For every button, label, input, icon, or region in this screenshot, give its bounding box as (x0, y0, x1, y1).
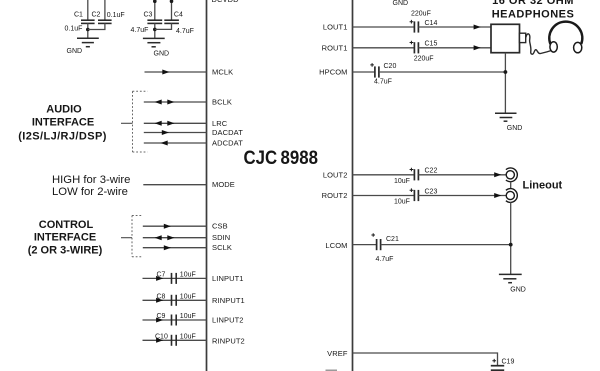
capacitor C3 (144, 12, 163, 24)
svg-text:HIGH for 3-wire: HIGH for 3-wire (52, 174, 130, 186)
svg-text:C8: C8 (157, 293, 166, 300)
capacitor C21 (371, 233, 399, 250)
wire MODE (143, 184, 206, 186)
svg-text:ROUT2: ROUT2 (322, 191, 348, 200)
svg-text:16 OR 32 OHM: 16 OR 32 OHM (492, 0, 574, 7)
capacitor C8 (157, 293, 177, 306)
arrow MCLK right (162, 70, 169, 75)
svg-text:C23: C23 (425, 188, 438, 195)
svg-text:10uF: 10uF (180, 271, 196, 278)
wire lineout jacks to ground (510, 202, 512, 274)
wire VREF (353, 353, 498, 365)
IC U1 CJC8988 right edge (352, 0, 354, 371)
junction dot LCOM (509, 243, 513, 247)
svg-text:RINPUT2: RINPUT2 (212, 336, 245, 345)
label AUDIO INTERFACE (I2S/LJ/RJ/DSP) (18, 104, 107, 143)
svg-text:GND: GND (507, 125, 523, 132)
wire between lineout jacks (510, 182, 512, 189)
wire SCLK (143, 247, 207, 249)
arrow SCLK right (164, 245, 171, 250)
junction dot HPCOM (504, 70, 508, 74)
svg-text:CSB: CSB (212, 222, 228, 231)
connector line control text to bracket (121, 237, 132, 239)
wire LOUT2 to lineout jack (418, 174, 506, 176)
arrows BCLK bidirectional (155, 100, 162, 105)
svg-text:Lineout: Lineout (523, 180, 563, 192)
wire C4 bottom L to junction (155, 23, 172, 29)
svg-text:10uF: 10uF (394, 199, 410, 206)
svg-text:SCLK: SCLK (212, 243, 232, 252)
wire DACDAT (144, 132, 207, 134)
svg-text:C10: C10 (155, 333, 168, 340)
ground under lineout (499, 274, 526, 293)
svg-text:DACDAT: DACDAT (212, 128, 243, 137)
wire ROUT1 to jack (418, 47, 491, 49)
svg-text:RINPUT1: RINPUT1 (212, 296, 245, 305)
junction dot C4 top (170, 0, 174, 3)
arrow ROUT1 into jack (474, 45, 481, 50)
wire C1 top (87, 0, 89, 20)
capacitor C23 (410, 188, 438, 201)
wire C3 top (154, 0, 156, 20)
arrows SDIN bidirectional (155, 235, 162, 240)
svg-text:LOW for 2-wire: LOW for 2-wire (52, 186, 128, 198)
svg-text:ADCDAT: ADCDAT (212, 139, 243, 148)
svg-text:AUDIO: AUDIO (46, 104, 82, 116)
junction dot C3/C4 (153, 28, 157, 32)
wire LINPUT2 (143, 319, 207, 321)
ground under headphone jack (495, 113, 522, 132)
arrow RINPUT2 (156, 338, 163, 343)
arrow CSB right (164, 224, 171, 229)
svg-text:220uF: 220uF (411, 10, 431, 17)
svg-text:220uF: 220uF (414, 56, 434, 63)
svg-text:10uF: 10uF (394, 178, 410, 185)
svg-text:INTERFACE: INTERFACE (32, 116, 94, 128)
IC U1 CJC8988 left edge (206, 0, 208, 371)
wire HPCOM left (353, 71, 375, 73)
svg-text:LCOM: LCOM (325, 241, 347, 250)
svg-text:HEADPHONES: HEADPHONES (492, 8, 575, 20)
audio interface dashed bracket (133, 91, 148, 152)
svg-text:LOUT2: LOUT2 (323, 170, 348, 179)
svg-text:C7: C7 (157, 271, 166, 278)
capacitor C19 (491, 359, 515, 371)
wire LCOM left (353, 244, 377, 246)
wire LRC (144, 122, 207, 124)
svg-text:BCLK: BCLK (212, 98, 232, 107)
svg-text:(I2S/LJ/RJ/DSP): (I2S/LJ/RJ/DSP) (18, 131, 107, 143)
wire ROUT1 (353, 47, 414, 49)
svg-text:LINPUT2: LINPUT2 (212, 316, 244, 325)
capacitor C14 (410, 20, 438, 33)
svg-text:SDIN: SDIN (212, 233, 230, 242)
svg-text:LRC: LRC (212, 119, 228, 128)
wire C2 bottom L to junction (88, 23, 105, 29)
ground under C1 (67, 38, 99, 55)
svg-text:MODE: MODE (212, 180, 235, 189)
wire C1 bottom to ground (87, 23, 89, 38)
capacitor C10 (155, 333, 176, 346)
svg-text:C1: C1 (74, 11, 83, 18)
svg-text:GND: GND (154, 50, 170, 57)
svg-text:INTERFACE: INTERFACE (34, 231, 96, 243)
junction dot C3 top (153, 0, 157, 3)
arrow DACDAT right (162, 130, 169, 135)
wire ADCDAT (144, 142, 207, 144)
wire jack box to ground (504, 53, 506, 113)
wire LCOM right to junction (381, 244, 511, 246)
wire BCLK (144, 101, 207, 103)
arrow RINPUT1 (156, 298, 163, 303)
svg-text:MCLK: MCLK (212, 68, 233, 77)
capacitor C7 (157, 271, 177, 284)
headphones headband (549, 22, 582, 44)
svg-text:C15: C15 (425, 41, 438, 48)
wire CSB (143, 225, 207, 227)
svg-text:CONTROL: CONTROL (39, 219, 94, 231)
arrows LRC bidirectional (155, 121, 162, 126)
control interface dashed bracket (132, 216, 142, 257)
svg-text:GND: GND (510, 287, 526, 294)
arrow LINPUT2 (156, 318, 163, 323)
headphones left earpiece (550, 42, 557, 52)
svg-text:C3: C3 (144, 12, 153, 19)
wire HPCOM right to junction (379, 71, 506, 73)
arrow ADCDAT left (161, 141, 168, 146)
svg-text:10uF: 10uF (180, 333, 196, 340)
wire LOUT1 (353, 26, 414, 28)
wire MCLK (145, 71, 207, 73)
arrow ROUT2 (494, 193, 501, 198)
wire RINPUT1 (143, 299, 207, 301)
headphones right earpiece (574, 42, 582, 52)
wire ROUT2 to lineout jack (418, 195, 506, 197)
wire RINPUT2 (143, 339, 207, 341)
wire LOUT1 to jack (418, 26, 491, 28)
svg-text:10uF: 10uF (180, 313, 196, 320)
label CONTROL INTERFACE (2 OR 3-WIRE) (28, 219, 103, 256)
svg-text:4.7uF: 4.7uF (376, 256, 394, 263)
svg-text:C21: C21 (386, 236, 399, 243)
capacitor C2 (92, 11, 112, 23)
lineout jack bottom (RCA) (506, 189, 517, 203)
lineout jack top (RCA) (506, 168, 517, 182)
arrow LOUT2 (494, 172, 501, 177)
svg-text:0.1uF: 0.1uF (107, 12, 125, 19)
arrow LOUT1 into jack (474, 25, 481, 30)
capacitor C15 (410, 41, 438, 54)
svg-text:C20: C20 (384, 63, 397, 70)
connector line audio text to bracket (121, 122, 133, 124)
capacitor C9 (157, 313, 177, 326)
svg-text:ROUT1: ROUT1 (322, 43, 348, 52)
wire LOUT2 (353, 174, 414, 176)
svg-text:C14: C14 (425, 20, 438, 27)
wire LINPUT1 (143, 277, 207, 279)
svg-text:C22: C22 (425, 168, 438, 175)
svg-text:CJC 8988: CJC 8988 (244, 148, 319, 169)
cropped pin label bottom edge (326, 370, 338, 371)
capacitor C20 (370, 63, 396, 78)
wire C2 top (104, 0, 106, 20)
svg-text:LINPUT1: LINPUT1 (212, 274, 244, 283)
svg-text:HPCOM: HPCOM (319, 68, 347, 77)
capacitor C4 (164, 11, 183, 23)
headphone jack tab (520, 33, 526, 42)
wire C4 top (171, 0, 173, 20)
svg-text:C4: C4 (174, 11, 183, 18)
ground under C3 (143, 38, 169, 57)
cropped pin label AVDD (top edge, clipped) (212, 0, 240, 4)
headphone jack J1 box (491, 24, 520, 52)
arrow LINPUT1 (156, 276, 163, 281)
svg-text:GND: GND (67, 48, 83, 55)
svg-text:C19: C19 (502, 359, 515, 366)
capacitor C1 (74, 11, 95, 23)
svg-text:LOUT1: LOUT1 (323, 23, 348, 32)
svg-text:VREF: VREF (327, 349, 348, 358)
headphone cable (526, 34, 551, 54)
svg-text:10uF: 10uF (180, 293, 196, 300)
svg-text:C9: C9 (157, 313, 166, 320)
wire C3 bottom to ground (154, 23, 156, 38)
junction dot C1/C2 (86, 28, 90, 32)
svg-text:4.7uF: 4.7uF (176, 28, 194, 35)
wire SDIN (143, 237, 207, 239)
svg-text:0.1uF: 0.1uF (65, 25, 83, 32)
svg-text:4.7uF: 4.7uF (374, 79, 392, 86)
svg-text:4.7uF: 4.7uF (131, 27, 149, 34)
wire ROUT2 (353, 195, 414, 197)
capacitor C22 (410, 168, 438, 181)
svg-text:(2 OR 3-WIRE): (2 OR 3-WIRE) (28, 244, 103, 256)
svg-text:C2: C2 (92, 11, 101, 18)
svg-text:GND: GND (393, 0, 409, 7)
